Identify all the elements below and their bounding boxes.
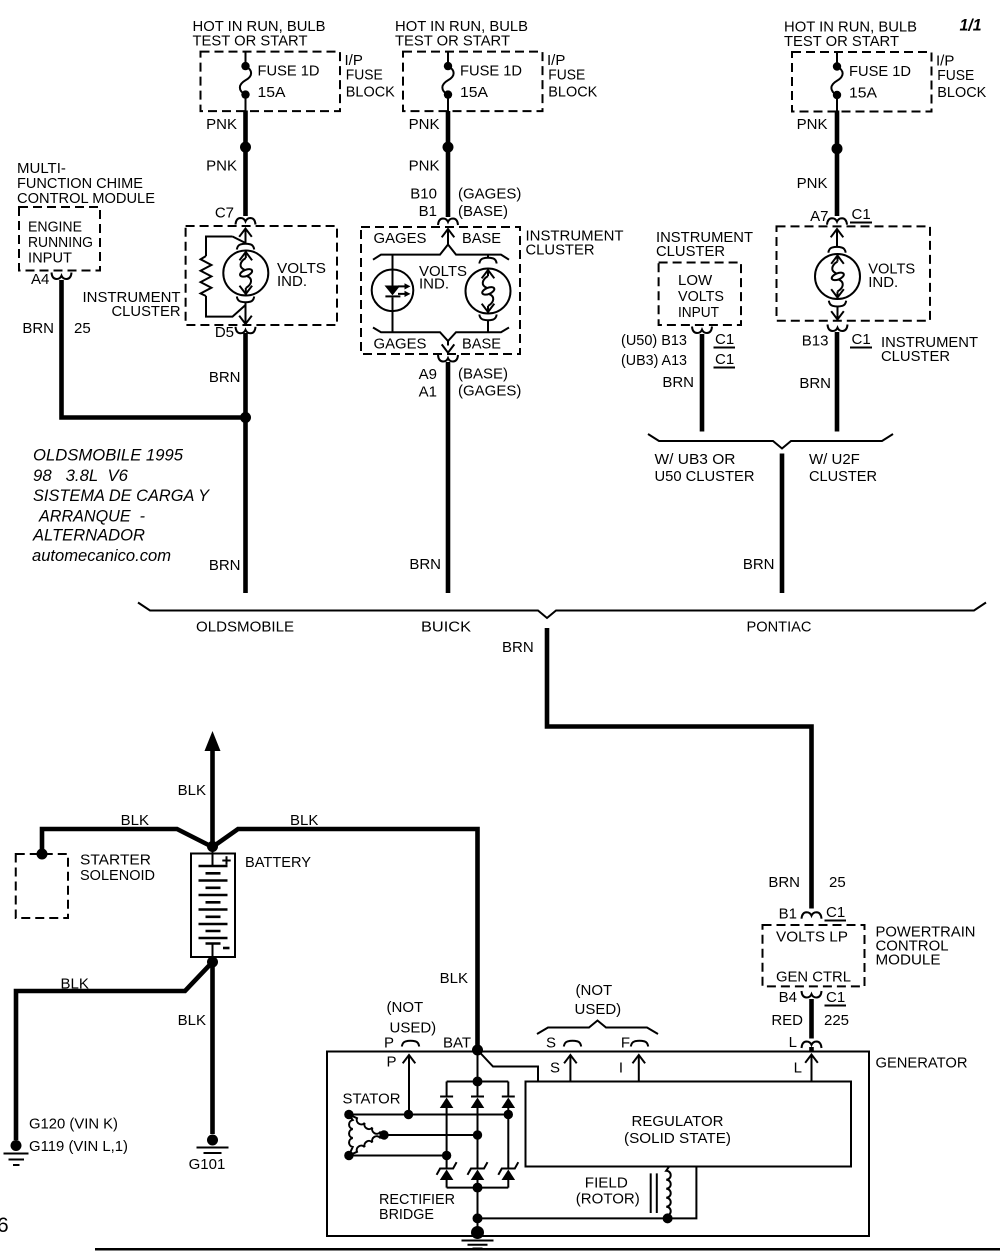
- svg-text:BASE: BASE: [462, 336, 501, 353]
- svg-text:(ROTOR): (ROTOR): [576, 1191, 640, 1208]
- svg-text:L: L: [789, 1034, 797, 1051]
- svg-text:PNK: PNK: [797, 175, 828, 192]
- svg-text:BLK: BLK: [121, 812, 149, 829]
- svg-text:PONTIAC: PONTIAC: [747, 619, 812, 636]
- svg-text:C1: C1: [715, 351, 734, 368]
- svg-text:GENERATOR: GENERATOR: [876, 1055, 968, 1072]
- svg-text:P: P: [384, 1035, 394, 1052]
- svg-text:FIELD: FIELD: [585, 1175, 628, 1192]
- svg-text:SISTEMA DE CARGA Y: SISTEMA DE CARGA Y: [33, 487, 210, 505]
- svg-text:CLUSTER: CLUSTER: [112, 303, 181, 320]
- svg-text:BATTERY: BATTERY: [245, 854, 311, 871]
- svg-text:W/ UB3 OR: W/ UB3 OR: [655, 451, 736, 468]
- svg-text:GAGES: GAGES: [374, 336, 427, 353]
- svg-text:ENGINE: ENGINE: [28, 219, 82, 236]
- svg-text:(UB3) A13: (UB3) A13: [621, 352, 687, 369]
- svg-text:A7: A7: [810, 208, 828, 225]
- svg-text:B13: B13: [802, 333, 829, 350]
- svg-text:(SOLID STATE): (SOLID STATE): [624, 1130, 731, 1147]
- svg-text:C1: C1: [852, 331, 871, 348]
- svg-text:U50 CLUSTER: U50 CLUSTER: [655, 468, 755, 485]
- svg-text:IND.: IND.: [277, 273, 307, 290]
- svg-text:S: S: [550, 1060, 560, 1077]
- svg-text:SOLENOID: SOLENOID: [80, 867, 155, 884]
- svg-text:USED): USED): [575, 1001, 622, 1018]
- svg-text:INPUT: INPUT: [28, 250, 72, 267]
- svg-text:LOW: LOW: [678, 272, 713, 289]
- svg-text:BLK: BLK: [440, 970, 468, 987]
- svg-text:REGULATOR: REGULATOR: [632, 1113, 724, 1130]
- svg-text:C1: C1: [852, 206, 871, 223]
- svg-text:ARRANQUE -: ARRANQUE -: [38, 507, 145, 525]
- svg-text:F: F: [621, 1035, 630, 1052]
- svg-text:BRN: BRN: [22, 320, 54, 337]
- svg-text:OLDSMOBILE: OLDSMOBILE: [196, 619, 294, 636]
- svg-text:OLDSMOBILE 1995: OLDSMOBILE 1995: [33, 447, 184, 465]
- svg-text:STARTER: STARTER: [80, 852, 151, 869]
- svg-text:VOLTS LP: VOLTS LP: [776, 929, 848, 946]
- svg-text:BRN: BRN: [502, 639, 534, 656]
- svg-text:BASE: BASE: [462, 230, 501, 247]
- svg-text:A4: A4: [31, 271, 49, 288]
- svg-text:G120 (VIN K): G120 (VIN K): [29, 1116, 118, 1133]
- svg-text:C1: C1: [826, 904, 845, 921]
- svg-text:G119 (VIN L,1): G119 (VIN L,1): [29, 1138, 128, 1155]
- svg-text:BLK: BLK: [61, 976, 89, 993]
- svg-text:CONTROL MODULE: CONTROL MODULE: [17, 190, 155, 207]
- svg-text:P: P: [386, 1054, 396, 1071]
- svg-text:BRN: BRN: [409, 556, 441, 573]
- svg-text:25: 25: [829, 874, 846, 891]
- svg-text:1/1: 1/1: [960, 16, 982, 35]
- svg-text:PNK: PNK: [409, 116, 440, 133]
- svg-text:B1: B1: [779, 906, 797, 923]
- svg-text:6: 6: [0, 1214, 9, 1237]
- svg-text:BLK: BLK: [178, 1012, 206, 1029]
- svg-text:PNK: PNK: [797, 116, 828, 133]
- svg-text:W/ U2F: W/ U2F: [809, 451, 860, 468]
- svg-text:D5: D5: [215, 324, 234, 341]
- svg-text:RED: RED: [771, 1012, 803, 1029]
- svg-text:automecanico.com: automecanico.com: [32, 547, 171, 565]
- svg-text:(GAGES): (GAGES): [458, 383, 521, 400]
- svg-text:CLUSTER: CLUSTER: [526, 242, 595, 259]
- svg-text:I: I: [619, 1060, 623, 1077]
- svg-text:BRN: BRN: [662, 374, 694, 391]
- svg-text:CLUSTER: CLUSTER: [881, 348, 950, 365]
- svg-text:BLK: BLK: [178, 782, 206, 799]
- svg-text:L: L: [794, 1060, 802, 1077]
- svg-text:GAGES: GAGES: [374, 230, 427, 247]
- svg-text:PNK: PNK: [206, 116, 237, 133]
- svg-text:CLUSTER: CLUSTER: [809, 468, 877, 485]
- svg-text:BRN: BRN: [209, 369, 241, 386]
- svg-text:(GAGES): (GAGES): [458, 186, 521, 203]
- svg-text:A9: A9: [419, 366, 437, 383]
- svg-text:BRN: BRN: [743, 556, 775, 573]
- svg-text:B4: B4: [779, 989, 797, 1006]
- svg-text:BUICK: BUICK: [421, 619, 471, 636]
- svg-text:PNK: PNK: [206, 158, 237, 175]
- svg-text:(U50) B13: (U50) B13: [621, 332, 687, 349]
- svg-text:B10: B10: [410, 186, 437, 203]
- svg-text:VOLTS: VOLTS: [678, 288, 724, 305]
- svg-text:98 3.8L V6: 98 3.8L V6: [33, 467, 129, 485]
- svg-text:B1: B1: [419, 203, 437, 220]
- svg-text:RUNNING: RUNNING: [28, 234, 93, 251]
- svg-text:S: S: [546, 1035, 556, 1052]
- svg-text:25: 25: [74, 320, 91, 337]
- svg-text:BRN: BRN: [768, 874, 800, 891]
- svg-text:BRN: BRN: [209, 557, 241, 574]
- svg-text:IND.: IND.: [419, 276, 449, 293]
- svg-text:BRN: BRN: [799, 375, 831, 392]
- svg-text:BLK: BLK: [290, 812, 318, 829]
- svg-text:G101: G101: [189, 1156, 226, 1173]
- svg-text:C1: C1: [715, 331, 734, 348]
- svg-text:USED): USED): [390, 1020, 437, 1037]
- svg-text:MODULE: MODULE: [876, 952, 941, 969]
- svg-text:PNK: PNK: [409, 158, 440, 175]
- svg-text:INPUT: INPUT: [678, 304, 719, 321]
- svg-text:A1: A1: [419, 384, 437, 401]
- svg-text:(BASE): (BASE): [458, 366, 508, 383]
- svg-text:GEN CTRL: GEN CTRL: [776, 969, 851, 986]
- svg-text:C7: C7: [215, 205, 234, 222]
- svg-text:IND.: IND.: [868, 274, 898, 291]
- svg-text:ALTERNADOR: ALTERNADOR: [32, 527, 145, 545]
- svg-text:STATOR: STATOR: [343, 1091, 401, 1108]
- svg-text:(BASE): (BASE): [458, 203, 508, 220]
- svg-text:225: 225: [824, 1012, 849, 1029]
- svg-text:BRIDGE: BRIDGE: [379, 1206, 434, 1223]
- svg-text:BAT: BAT: [443, 1035, 471, 1052]
- svg-text:CLUSTER: CLUSTER: [656, 243, 725, 260]
- svg-text:(NOT: (NOT: [387, 999, 424, 1016]
- svg-text:(NOT: (NOT: [576, 982, 613, 999]
- svg-text:C1: C1: [826, 989, 845, 1006]
